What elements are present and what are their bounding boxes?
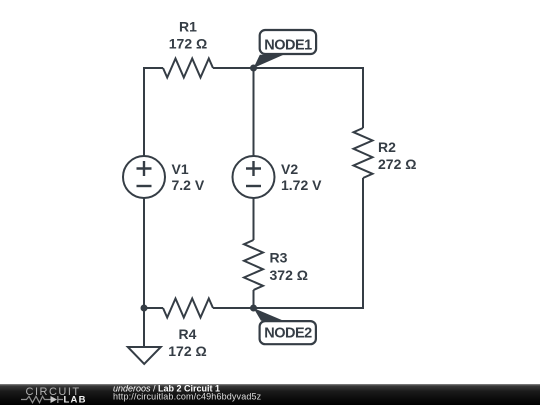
resistor R2 [354,128,373,178]
junction node at bottom [250,305,257,312]
svg-text:NODE2: NODE2 [264,326,312,342]
wire [254,178,364,308]
svg-text:NODE1: NODE1 [264,37,312,53]
svg-text:LAB: LAB [64,394,87,405]
node NODE1 [254,30,317,68]
wire [143,308,145,347]
junction node at top [250,65,257,72]
wire [143,198,145,309]
footer bar [0,384,540,405]
svg-text:V1: V1 [172,161,189,177]
svg-text:272 Ω: 272 Ω [378,156,416,172]
wire [254,68,364,128]
svg-text:R3: R3 [270,250,288,266]
ground [128,347,161,364]
svg-text:7.2 V: 7.2 V [172,177,205,193]
wire [213,307,254,309]
voltage source V1 [123,156,165,198]
junction node at ground [141,305,148,312]
wire [253,290,255,308]
wire [253,68,255,157]
node NODE2 [254,308,316,344]
logo diode [51,396,58,403]
resistor R4 [163,299,213,318]
svg-text:http://circuitlab.com/c49h6bdy: http://circuitlab.com/c49h6bdyvad5z [113,391,262,401]
svg-text:172 Ω: 172 Ω [168,343,206,359]
wire [144,68,163,157]
svg-text:R4: R4 [179,326,197,342]
svg-text:372 Ω: 372 Ω [270,267,308,283]
svg-text:V2: V2 [281,161,298,177]
voltage source V2 [233,156,275,198]
svg-text:172 Ω: 172 Ω [169,36,207,52]
resistor R3 [244,240,263,290]
svg-text:R1: R1 [179,19,197,35]
wire [144,307,163,309]
logo zigzag [21,396,51,402]
wire [213,67,254,69]
wire [253,198,255,241]
svg-text:1.72 V: 1.72 V [281,177,322,193]
resistor R1 [163,59,213,78]
svg-text:R2: R2 [378,139,396,155]
